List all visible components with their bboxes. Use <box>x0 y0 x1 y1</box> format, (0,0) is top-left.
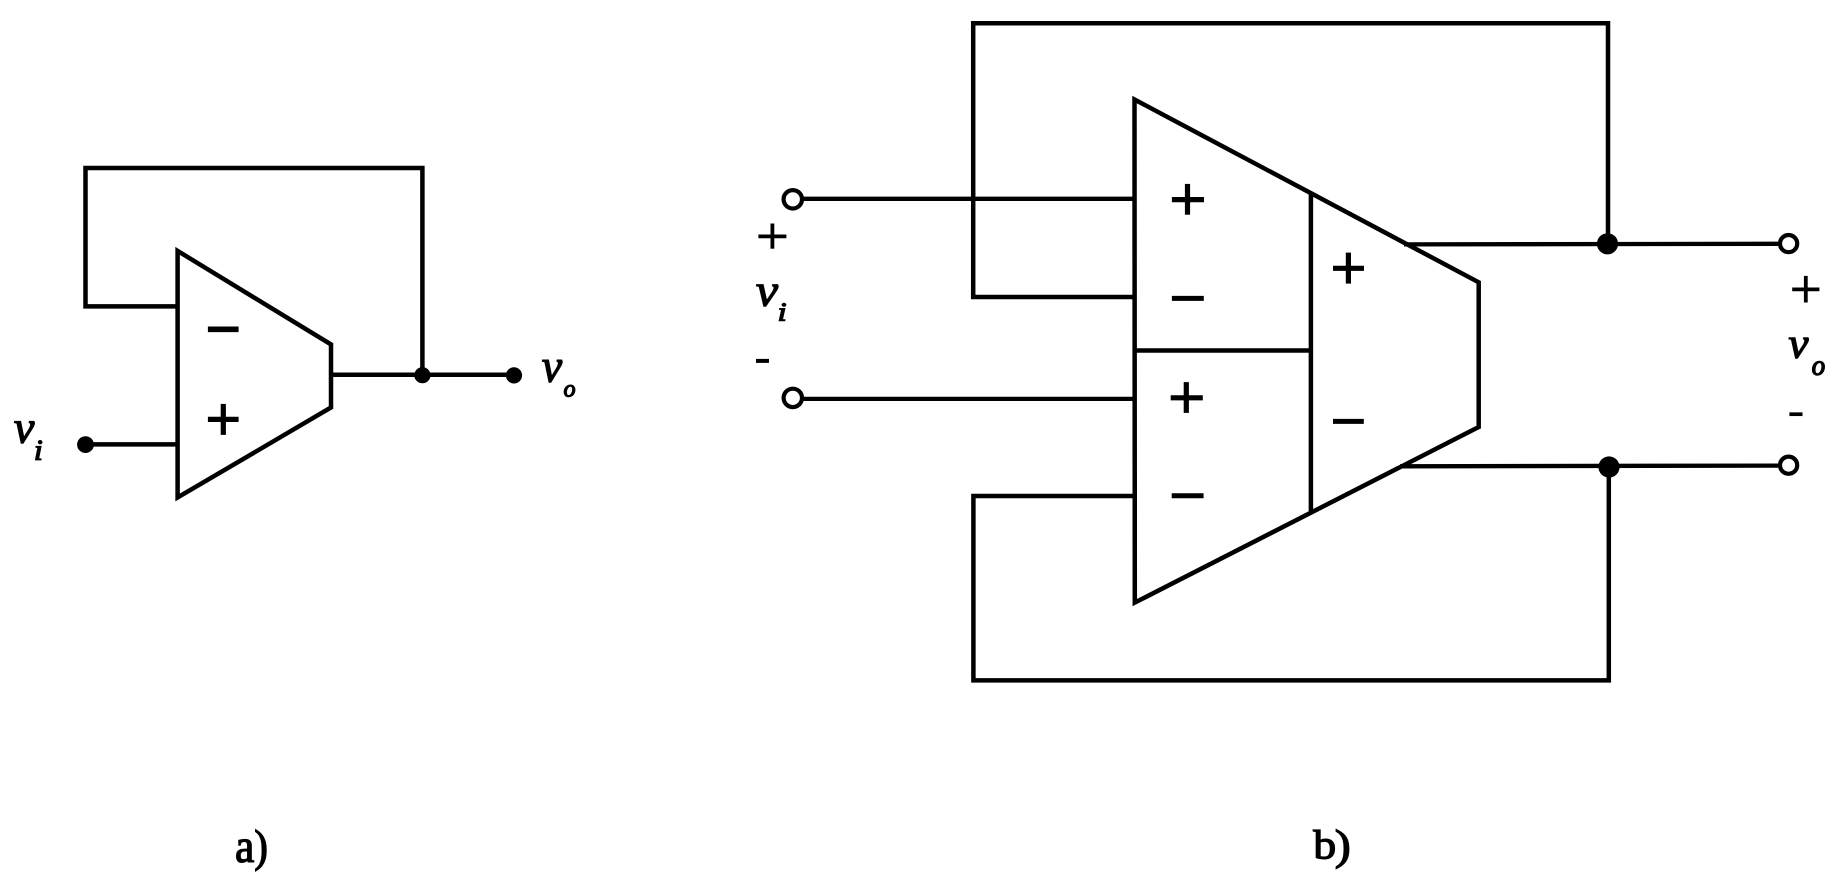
label minus upper input section <box>1172 296 1204 301</box>
caption b) <box>1313 830 1348 869</box>
wire bottom output <box>1400 463 1778 468</box>
op-amp U2 inner divider horizontal <box>1135 348 1311 353</box>
wire top input vi+ <box>803 197 1135 201</box>
wire feedback loop from output to inverting input <box>86 168 423 375</box>
node vo- terminal circle <box>1780 457 1797 474</box>
wire top feedback loop <box>973 23 1608 297</box>
label minus lower input section <box>1172 493 1204 498</box>
label plus polarity at vo <box>1792 276 1819 303</box>
label minus polarity at vo <box>1789 412 1802 416</box>
wire bottom feedback loop <box>973 467 1608 680</box>
op-amp U2 body <box>1135 100 1479 603</box>
node output junction <box>414 367 430 383</box>
label vi differential <box>757 285 786 321</box>
wire output <box>331 372 514 377</box>
op-amp U2 inner input-stage divider vertical <box>1309 192 1314 512</box>
label minus output section <box>1333 419 1364 424</box>
node bottom output junction <box>1598 456 1619 477</box>
op-amp U1 inverting input label (minus) <box>208 326 239 332</box>
node vi+ terminal circle <box>784 190 802 208</box>
node vo+ terminal circle <box>1780 235 1797 252</box>
label vo <box>542 360 574 397</box>
label plus lower input section <box>1171 382 1203 413</box>
node vi- terminal circle <box>784 389 802 407</box>
caption a) <box>237 830 266 871</box>
label minus polarity at vi <box>756 359 769 363</box>
node vi terminal <box>77 436 94 453</box>
node top output junction <box>1597 233 1618 254</box>
op-amp U1 non-inverting input label (plus) <box>208 404 239 435</box>
label vo differential <box>1789 338 1824 375</box>
label plus polarity at vi <box>758 224 786 249</box>
label plus upper input section <box>1172 184 1204 215</box>
wire top output <box>1404 242 1778 247</box>
label vi <box>15 422 42 460</box>
node vo terminal <box>506 367 522 383</box>
wire bottom input vi- <box>803 397 1135 401</box>
label plus output section <box>1333 253 1364 284</box>
wire input vi to non-inverting input <box>86 442 178 447</box>
op-amp U1 <box>178 251 331 498</box>
